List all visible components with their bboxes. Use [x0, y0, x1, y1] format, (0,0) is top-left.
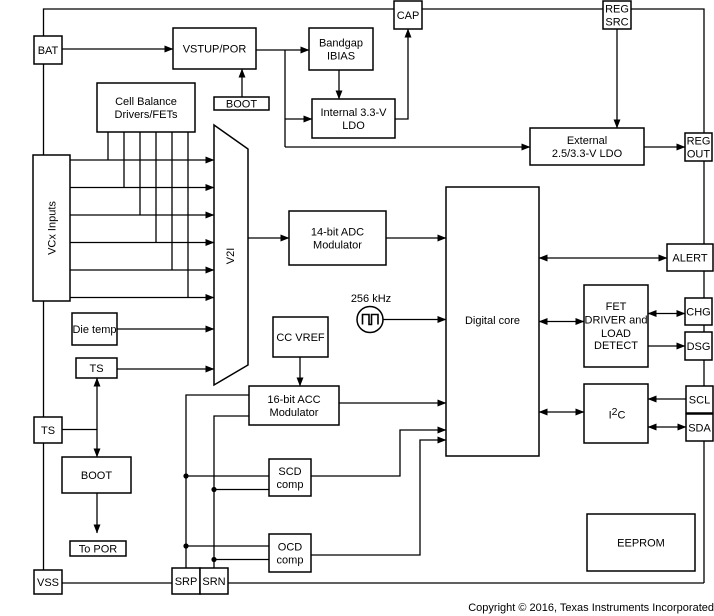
pad SCL [686, 386, 713, 413]
svg-text:comp: comp [277, 555, 304, 567]
wire REG OUT down right rail to bottom [703, 161, 705, 244]
svg-text:BAT: BAT [38, 45, 59, 57]
svg-text:ALERT: ALERT [672, 253, 708, 265]
block 16-bit ACC Modulator [249, 386, 339, 425]
svg-text:Die temp: Die temp [72, 324, 116, 336]
block Bandgap IBIAS [309, 28, 373, 70]
svg-text:IBIAS: IBIAS [327, 51, 355, 63]
svg-text:16-bit ACC: 16-bit ACC [267, 394, 320, 406]
wire VSTUP/POR to Bandgap IBIAS [256, 49, 309, 51]
block Internal 3.3-V LDO [312, 99, 395, 138]
block OCD comp [269, 534, 311, 572]
wire V2I to 14-bit ADC [248, 237, 289, 239]
svg-text:Cell Balance: Cell Balance [115, 96, 177, 108]
block V2I mux [214, 125, 248, 385]
wire SRN rail up to ACC [214, 416, 249, 568]
wire branch to Internal LDO [285, 118, 312, 120]
block Digital core [446, 187, 539, 456]
wire Digital core to ALERT bidirectional [539, 257, 667, 259]
svg-text:DETECT: DETECT [594, 340, 638, 352]
svg-text:SCL: SCL [689, 395, 710, 407]
wire right rail CHG to DSG [703, 325, 705, 332]
wire BOOT to To POR [96, 493, 98, 533]
svg-text:Bandgap: Bandgap [319, 38, 363, 50]
svg-text:SDA: SDA [688, 423, 711, 435]
wire REG SRC to External LDO [616, 29, 618, 128]
wire VCx line 3 to V2I [70, 214, 214, 216]
node SRN-OCD junction [211, 557, 216, 562]
svg-text:EEPROM: EEPROM [617, 538, 665, 550]
wire VCx line 1 to V2I [70, 159, 214, 161]
wire left rail TS pad to VSS [43, 443, 45, 570]
wire SRN to OCD comp [214, 559, 269, 561]
svg-text:BOOT: BOOT [81, 470, 112, 482]
wire External LDO to REG OUT [644, 146, 685, 148]
svg-text:To POR: To POR [79, 544, 118, 556]
pad BAT [34, 36, 62, 64]
wire cell balance drop 2 [123, 132, 125, 188]
svg-text:Modulator: Modulator [270, 407, 319, 419]
wire cell balance drop 6 [187, 132, 189, 298]
wire right rail ALERT to CHG [703, 271, 705, 298]
svg-text:256 kHz: 256 kHz [351, 293, 391, 305]
wire TS to V2I [117, 368, 214, 370]
block CC VREF [273, 317, 328, 357]
wire Die temp to V2I [117, 328, 214, 330]
pad CAP [394, 1, 422, 29]
node SRP-SCD junction [183, 473, 188, 478]
pad SRP [172, 568, 200, 594]
svg-text:REG: REG [687, 136, 711, 148]
wire OCD comp to Digital core [311, 440, 446, 555]
svg-text:DRIVER and: DRIVER and [585, 315, 648, 327]
block SCD comp [269, 459, 311, 496]
block To POR [70, 541, 126, 556]
svg-text:2.5/3.3-V LDO: 2.5/3.3-V LDO [552, 148, 623, 160]
svg-text:Modulator: Modulator [313, 240, 362, 252]
wire SRN to SCD comp [214, 489, 269, 491]
block Cell Balance Drivers/FETs [97, 83, 195, 132]
svg-text:REG: REG [605, 4, 629, 16]
wire TS pad to junction [62, 429, 97, 431]
wire BAT to VSTUP/POR [62, 48, 173, 50]
svg-text:VSTUP/POR: VSTUP/POR [183, 44, 247, 56]
wire left rail BAT to VCx Inputs [43, 64, 45, 155]
block VCx Inputs [33, 155, 70, 301]
svg-text:CC VREF: CC VREF [276, 332, 325, 344]
svg-text:SRC: SRC [605, 17, 628, 29]
wire CC VREF to 16-bit ACC [299, 357, 301, 386]
wire oscillator to Digital core [383, 319, 446, 321]
svg-text:CAP: CAP [397, 10, 420, 22]
svg-text:SRP: SRP [175, 576, 198, 588]
wire cell balance drop 5 [171, 132, 173, 270]
wire Internal LDO to CAP [395, 29, 408, 119]
wire Digital core to I2C bidirectional [539, 411, 584, 413]
wire I2C to SDA bidirectional [648, 426, 686, 428]
wire cell balance drop 4 [155, 132, 157, 243]
pad TS [34, 417, 62, 443]
svg-text:Digital core: Digital core [465, 315, 520, 327]
wire branch down from VSTUP output [284, 50, 286, 147]
wire bottom rail VSS to SRP [62, 582, 172, 584]
block BOOT [62, 457, 131, 493]
svg-text:DSG: DSG [687, 341, 711, 353]
wire SRP rail up to ACC [186, 395, 249, 568]
wire top rail CAP to REG SRC [422, 8, 603, 10]
svg-text:Copyright © 2016, Texas Instru: Copyright © 2016, Texas Instruments Inco… [468, 602, 714, 614]
block 14-bit ADC Modulator [289, 211, 386, 265]
svg-text:LDO: LDO [342, 120, 365, 132]
svg-text:TS: TS [89, 363, 103, 375]
pad VSS [34, 570, 62, 594]
wire SRP to SCD comp [186, 475, 269, 477]
node SRP-OCD junction [183, 543, 188, 548]
svg-text:FET: FET [606, 301, 627, 313]
wire BOOT to VSTUP/POR [241, 69, 243, 97]
svg-text:OUT: OUT [687, 149, 711, 161]
block EEPROM [587, 514, 695, 571]
pad CHG [685, 298, 712, 325]
svg-text:External: External [567, 135, 607, 147]
svg-text:Internal 3.3-V: Internal 3.3-V [320, 107, 387, 119]
wire cell balance drop 3 [139, 132, 141, 215]
svg-text:SCD: SCD [278, 466, 301, 478]
wire VCx line 5 to V2I [70, 269, 214, 271]
wire top rail REG SRC to right corner down to REG OUT [631, 9, 704, 133]
svg-text:VSS: VSS [37, 577, 59, 589]
pad ALERT [667, 244, 713, 271]
wire 16-bit ACC to Digital core [339, 402, 446, 404]
wire VCx line 6 to V2I [70, 297, 214, 299]
svg-text:LOAD: LOAD [601, 328, 631, 340]
wire Bandgap to Internal LDO [338, 70, 340, 99]
pad REG SRC [603, 1, 631, 29]
pad DSG [685, 332, 712, 360]
wire junction down to BOOT [96, 430, 98, 458]
wire right rail SDA to bottom rail [703, 441, 705, 583]
svg-text:CHG: CHG [686, 307, 710, 319]
block VSTUP/POR [173, 28, 256, 69]
wire Digital core to FET DRIVER bidirectional [539, 321, 584, 323]
wire cell balance drop 1 [107, 132, 109, 160]
wire right rail DSG to SCL [703, 360, 705, 386]
svg-text:Drivers/FETs: Drivers/FETs [115, 109, 178, 121]
svg-text:BOOT: BOOT [226, 99, 257, 111]
svg-text:OCD: OCD [278, 542, 303, 554]
wire top rail from BAT up and across to CAP [44, 9, 395, 36]
pad SDA [686, 414, 713, 441]
node SRN-SCD junction [211, 487, 216, 492]
wire junction up to TS [96, 378, 98, 430]
svg-text:V2I: V2I [225, 248, 237, 265]
svg-text:SRN: SRN [202, 576, 225, 588]
wire SCL to I2C [648, 398, 686, 400]
wire FET DRIVER to CHG bidirectional [648, 313, 685, 315]
block BOOT small [214, 97, 269, 111]
block FET DRIVER and LOAD DETECT [584, 285, 648, 367]
svg-text:comp: comp [277, 479, 304, 491]
wire FET DRIVER to DSG [648, 345, 685, 347]
block I2C [584, 384, 648, 443]
svg-text:TS: TS [41, 425, 55, 437]
block TS upper [76, 358, 117, 378]
block Die temp [72, 313, 117, 345]
wire branch to External LDO [285, 146, 530, 148]
wire SCD comp to Digital core [311, 430, 446, 476]
pad SRN [200, 568, 228, 594]
wire 14-bit ADC to Digital core [386, 237, 446, 239]
wire VCx line 4 to V2I [70, 242, 214, 244]
wire bottom rail SRN to right rail [228, 582, 704, 584]
svg-text:VCx Inputs: VCx Inputs [47, 201, 59, 255]
block External 2.5/3.3-V LDO [530, 128, 644, 165]
oscillator 256 kHz [351, 293, 391, 333]
wire SRP to OCD comp [186, 545, 269, 547]
wire left rail VCx Inputs to TS pad [43, 301, 45, 417]
wire VCx line 2 to V2I [70, 187, 214, 189]
svg-text:14-bit ADC: 14-bit ADC [311, 227, 364, 239]
pad REG OUT [685, 133, 712, 161]
